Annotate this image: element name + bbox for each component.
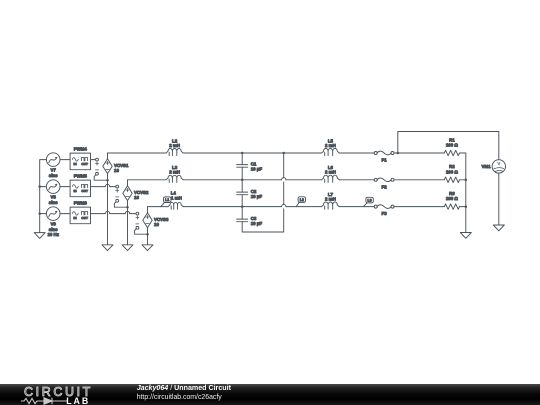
net flag L1 [164,197,171,203]
minus sign [136,223,139,225]
dependent source VCVS2 (VCVS diamond) [123,186,132,201]
wire hop over VCVS2 ground wire [125,211,129,213]
VCVS2 labels [134,190,149,200]
wire VCVS2 output + to row 2 [127,180,129,186]
wire R1 to bus [460,152,466,154]
L6 labels [325,165,336,175]
svg-text:10 Hz: 10 Hz [47,232,59,237]
svg-text:2 mH: 2 mH [169,170,180,175]
junction bus row3 [465,205,468,208]
VCVS3 control terminal - [136,226,139,229]
inductor L4 [168,202,183,206]
svg-text:2 mH: 2 mH [325,197,336,202]
wire bus to V9 [40,213,47,215]
wire top rail to voltmeter [398,132,499,160]
net flag L3 [366,197,373,203]
svg-text:OUT: OUT [81,216,88,220]
svg-text:F3: F3 [382,211,388,216]
svg-text:1 mH: 1 mH [171,195,182,200]
junction VCVS2 ground node [126,206,129,209]
junction row1 C3 return [282,152,285,155]
wire source bus left [40,160,47,233]
wire V9 to PWM6 IN [60,213,70,215]
svg-text:L2: L2 [300,198,304,202]
capacitor C3 [237,218,248,220]
dependent source VCVS3 (VCVS diamond) [143,213,152,228]
PWM block PWM4 [70,153,90,170]
wire row1 VCVS1 to L2 [108,152,167,154]
svg-text:PWM6: PWM6 [74,200,88,205]
svg-text:PWM5: PWM5 [74,173,88,178]
svg-text:PWM4: PWM4 [74,146,88,151]
resistor R1 [444,150,459,155]
wire row3 F3 to R3 [394,206,444,208]
VCVS2 control terminal - [116,199,119,202]
wire VCVS2 output - to ground [127,201,129,245]
wire row3 VCVS3 to L4 [148,206,169,208]
svg-text:IN: IN [74,189,78,193]
svg-text:sine: sine [49,173,58,178]
svg-text:VM1: VM1 [481,164,491,169]
L3 labels [169,165,180,175]
wire VCVS3 output - to ground [147,228,149,245]
svg-text:IN: IN [74,216,78,220]
wire C1 bottom lead [241,167,243,180]
wire row2 L3 to cap node [183,179,242,181]
capacitor C2 [237,191,248,193]
junction row1 C1 [241,152,244,155]
C3 labels [251,216,263,226]
junction row1 VM tap [397,152,400,155]
voltage source V8 (sine) [46,180,60,194]
wire row3 to L7 [286,206,322,208]
wire row1 L5 to F1 [339,152,374,154]
wire C1 top lead [241,153,243,165]
V9 labels [47,222,59,237]
svg-text:10: 10 [134,195,139,200]
inductor L3 [166,175,183,180]
plus sign [116,189,119,192]
ground VCVS1 [102,245,113,251]
wire VCVS1 output - to ground [107,174,109,245]
junction bus row2 [465,179,468,182]
svg-text:V: V [497,161,500,166]
wire load bus to ground [465,153,467,233]
wire hop over VCVS1 ground wire [105,184,109,186]
voltage source V9 (sine) [46,207,60,221]
wire row3 L7 to F3 [339,206,374,208]
svg-text:2 mH: 2 mH [169,143,180,148]
svg-text:OUT: OUT [81,189,88,193]
dependent source VCVS1 (VCVS diamond) [103,159,112,174]
wire row1 F1 to R1 [394,152,444,154]
wire C3 top lead [241,207,243,220]
wire V8 to PWM5 IN [60,186,70,188]
svg-text:100 Ω: 100 Ω [446,196,459,201]
svg-text:L3: L3 [367,199,371,203]
wire row3 L4 to cap node [183,206,242,208]
junction row2 C1 C2 [241,179,244,182]
voltmeter VM1 [492,160,505,173]
V8 labels [49,195,58,205]
wire hop row3 over C3 return [282,204,286,206]
wire C3 return mid [283,182,285,204]
VCVS3 control terminal + [136,212,139,215]
V7 labels [49,168,58,178]
switch F1 [374,152,377,155]
wire PWM6 OUT to VCVS3 control + [91,213,106,215]
wire hop row2 over C3 return [282,178,286,180]
L4 labels [171,191,182,201]
svg-text:10: 10 [154,222,159,227]
wire row2 to L6 [286,179,322,181]
svg-text:10 µF: 10 µF [251,166,263,171]
wire C3 return top [283,153,285,178]
ground VCVS3 [142,245,153,251]
inductor L6 [322,175,340,180]
CircuitLab logo symbol [21,397,67,405]
wire VCVS2 control - to ground node [114,202,127,207]
svg-text:OUT: OUT [81,162,88,166]
capacitor C1 [237,164,248,166]
wire row1 to L5 [284,152,322,154]
wire VCVS1 control - to ground node [94,175,107,180]
wire R3 to bus [460,206,466,208]
wire row2 L6 to F2 [339,179,374,181]
voltage source V7 (sine) [46,153,60,167]
VCVS1 labels [114,163,129,173]
wire V7 to PWM4 IN [60,159,70,161]
R2 labels [446,164,459,174]
wire VCVS3 control - to ground node [135,229,148,234]
plus sign [136,216,139,219]
svg-text:IN: IN [74,162,78,166]
PWM block PWM6 [70,207,90,224]
VCVS2 control terminal + [116,185,119,188]
wire PWM4 OUT to VCVS1 control + [91,159,96,161]
VCVS1 control terminal - [96,172,99,175]
svg-text:F2: F2 [382,184,388,189]
wire row1 cap node to return node [242,152,284,154]
ground VM1 [493,225,504,231]
junction VCVS1 ground node [106,179,109,182]
wire PWM5 OUT to VCVS2 control + [91,186,106,188]
inductor L7 [322,202,340,207]
junction source bus row2 [38,185,41,188]
R1 labels [446,137,459,147]
junction row3 C2 C3 [241,205,244,208]
svg-text:2 mH: 2 mH [325,143,336,148]
wire bus to V8 [40,186,47,188]
inductor L5 [322,148,340,153]
L7 labels [325,192,336,202]
wire row3 cap node to hop [242,206,281,208]
svg-text:L1: L1 [165,198,169,202]
wire C3 return bottom [242,209,284,232]
L2 labels [169,138,180,148]
ground load bus [460,233,471,239]
inductor L2 [166,148,183,153]
C2 labels [251,189,263,199]
R3 labels [446,191,459,201]
wire row2 cap node to hop [242,179,281,181]
VCVS3 labels [154,217,169,227]
svg-text:2 mH: 2 mH [325,170,336,175]
L5 labels [325,138,336,148]
svg-text:sine: sine [49,200,58,205]
junction VCVS3 ground node [146,233,149,236]
svg-text:100 Ω: 100 Ω [446,143,459,148]
switch F3 [374,205,377,208]
wire row1 L2 to cap node [183,152,242,154]
svg-text:10: 10 [114,168,119,173]
C1 labels [251,162,263,172]
wire VM1 to ground [498,173,500,225]
ground sources [34,233,45,239]
wire VCVS1 output + to row 1 [107,153,109,159]
wire VCVS3 output + to row 3 [147,207,149,213]
svg-text:F1: F1 [382,158,388,163]
ground VCVS2 [122,245,133,251]
VCVS1 control terminal + [96,158,99,161]
wire row2 VCVS2 to L3 [128,179,167,181]
svg-text:10 µF: 10 µF [251,194,263,199]
wire hop over VCVS1 ground wire [105,211,109,213]
net flag L2 [298,197,305,203]
plus sign [96,162,99,165]
wire C2 top lead [241,180,243,192]
wire row2 F2 to R2 [394,179,444,181]
junction source bus row3 [38,212,41,215]
svg-text:100 Ω: 100 Ω [446,169,459,174]
wire C2 bottom lead [241,195,243,207]
resistor R3 [444,204,459,209]
PWM block PWM5 [70,180,90,197]
minus sign [96,169,99,171]
switch F2 [374,178,377,181]
wire R2 to bus [460,179,466,181]
minus sign [116,196,119,198]
resistor R2 [444,177,459,182]
svg-text:10 µF: 10 µF [251,221,263,226]
